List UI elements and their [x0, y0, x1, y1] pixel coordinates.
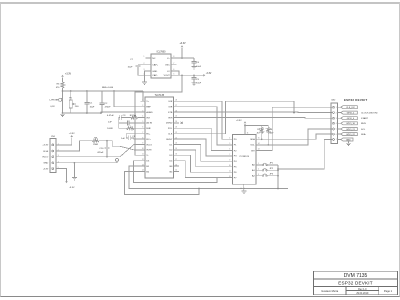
svg-text:IN HI: IN HI [43, 151, 48, 153]
svg-text:4: 4 [142, 116, 143, 118]
svg-text:12: 12 [142, 159, 144, 161]
svg-text:1: 1 [142, 100, 143, 102]
svg-text:O/R: O/R [168, 107, 172, 109]
svg-text:0,3V: 0,3V [50, 106, 55, 108]
svg-text:GPIO_21: GPIO_21 [346, 129, 356, 131]
svg-text:IN LO: IN LO [42, 157, 48, 159]
svg-text:15: 15 [258, 138, 260, 140]
svg-text:RUN: RUN [361, 123, 366, 125]
svg-text:+3.3V: +3.3V [65, 74, 72, 76]
svg-text:DGND: DGND [166, 123, 173, 125]
svg-text:+3.3V: +3.3V [69, 133, 75, 135]
svg-text:RC+: RC+ [146, 139, 151, 141]
svg-text:REF: REF [146, 107, 151, 109]
svg-text:10uF: 10uF [196, 66, 201, 68]
svg-text:REF=1.000: REF=1.000 [102, 87, 114, 89]
svg-text:V-: V- [146, 155, 148, 157]
svg-text:2: 2 [142, 105, 143, 107]
svg-text:29.04.2019: 29.04.2019 [356, 292, 369, 295]
svg-text:CLK: CLK [168, 134, 173, 136]
svg-text:16: 16 [247, 133, 249, 135]
svg-text:16: 16 [175, 164, 177, 166]
svg-text:1: 1 [143, 56, 144, 58]
svg-text:CAP+: CAP+ [152, 64, 158, 67]
svg-text:CLK_IO2: CLK_IO2 [346, 107, 355, 109]
svg-text:AZ IN: AZ IN [146, 122, 152, 125]
svg-text:14: 14 [258, 143, 260, 145]
svg-text:CAP-: CAP- [152, 74, 157, 77]
svg-text:14: 14 [142, 170, 144, 172]
svg-text:19: 19 [175, 148, 177, 150]
svg-text:2: 2 [258, 169, 259, 171]
svg-text:GND: GND [346, 139, 351, 141]
svg-text:GPIO_4: GPIO_4 [347, 118, 355, 120]
svg-text:+3.3V: +3.3V [179, 43, 186, 45]
svg-text:SDA: SDA [250, 138, 255, 141]
svg-text:15: 15 [175, 170, 177, 172]
svg-text:GND: GND [152, 71, 157, 73]
svg-text:7: 7 [173, 63, 174, 65]
svg-text:8: 8 [142, 137, 143, 139]
svg-text:5: 5 [229, 143, 230, 145]
svg-text:470uF: 470uF [97, 152, 104, 154]
svg-text:10: 10 [229, 165, 231, 167]
svg-text:6: 6 [173, 69, 174, 71]
svg-text:ICL7660: ICL7660 [157, 52, 166, 54]
svg-text:DVM 7135: DVM 7135 [344, 273, 368, 279]
svg-text:OSC: OSC [165, 65, 170, 67]
svg-text:CLOCK 490 KHz: CLOCK 490 KHz [361, 113, 378, 115]
svg-text:1uF: 1uF [108, 122, 112, 124]
svg-text:13: 13 [258, 149, 260, 151]
svg-text:11: 11 [229, 170, 231, 172]
svg-text:5: 5 [173, 74, 174, 76]
svg-text:26: 26 [175, 110, 177, 112]
svg-text:STB: STB [168, 112, 173, 114]
svg-text:+3.3V: +3.3V [42, 145, 48, 147]
svg-text:BUF: BUF [146, 128, 151, 130]
svg-text:SDA: SDA [361, 133, 366, 136]
svg-text:21: 21 [175, 137, 177, 139]
svg-text:-3.3V: -3.3V [43, 168, 49, 170]
svg-text:R7 10: R7 10 [130, 115, 137, 117]
svg-text:17: 17 [175, 159, 177, 161]
svg-text:24: 24 [175, 121, 177, 123]
svg-text:100R: 100R [93, 144, 98, 146]
svg-text:8: 8 [173, 56, 174, 58]
svg-text:-3.3V: -3.3V [206, 73, 212, 75]
svg-text:VOUT: VOUT [164, 75, 171, 77]
svg-text:3: 3 [142, 110, 143, 112]
svg-text:4: 4 [229, 138, 230, 140]
svg-text:ESP32 DEVKIT: ESP32 DEVKIT [344, 98, 367, 102]
svg-text:Page 1: Page 1 [384, 289, 393, 293]
svg-text:START: START [361, 117, 369, 120]
svg-text:POL: POL [168, 128, 173, 130]
svg-text:NC: NC [152, 58, 156, 60]
svg-text:11: 11 [142, 154, 144, 156]
svg-text:IN LO: IN LO [146, 144, 152, 146]
svg-text:Gustavo Murta: Gustavo Murta [321, 289, 339, 293]
svg-text:10uF: 10uF [90, 106, 95, 108]
svg-text:18: 18 [175, 154, 177, 156]
svg-text:L-PROBE: L-PROBE [49, 100, 59, 102]
svg-text:7: 7 [142, 132, 143, 134]
svg-text:6: 6 [229, 149, 230, 151]
svg-text:6: 6 [142, 127, 143, 129]
svg-text:GND: GND [43, 163, 48, 165]
svg-text:GPIO_2: GPIO_2 [347, 112, 355, 114]
svg-text:U/R: U/R [169, 101, 173, 103]
svg-text:28: 28 [175, 100, 177, 102]
svg-text:27: 27 [175, 105, 177, 107]
svg-text:7: 7 [229, 154, 230, 156]
svg-text:RC-: RC- [146, 134, 150, 136]
svg-text:+3.3V: +3.3V [236, 120, 242, 122]
svg-text:5: 5 [142, 121, 143, 123]
svg-text:10uF: 10uF [196, 83, 201, 85]
svg-text:GPIO_16: GPIO_16 [346, 123, 356, 125]
svg-text:22: 22 [175, 132, 177, 134]
svg-text:AGND: AGND [146, 111, 153, 114]
svg-text:1: 1 [258, 163, 259, 165]
svg-text:12: 12 [229, 176, 231, 178]
svg-text:13: 13 [142, 164, 144, 166]
svg-text:20: 20 [175, 143, 177, 145]
svg-text:Rev 1.0: Rev 1.0 [358, 288, 367, 291]
svg-text:PCF8574: PCF8574 [240, 156, 250, 158]
svg-text:-3.3V: -3.3V [69, 187, 75, 189]
svg-text:9: 9 [229, 159, 230, 161]
svg-text:BUSY: BUSY [166, 139, 172, 141]
svg-text:TLC7135: TLC7135 [155, 95, 165, 97]
svg-text:ESP32 DEVKIT: ESP32 DEVKIT [338, 281, 373, 286]
svg-text:IN HI: IN HI [146, 150, 151, 152]
svg-text:3: 3 [258, 174, 259, 176]
svg-text:100R: 100R [107, 128, 113, 130]
svg-text:25: 25 [175, 116, 177, 118]
svg-text:GPIO_22: GPIO_22 [346, 134, 356, 136]
svg-text:23: 23 [175, 127, 177, 129]
svg-text:1uF: 1uF [121, 138, 125, 140]
svg-text:10uF: 10uF [128, 66, 133, 68]
svg-text:R/H: R/H [169, 117, 173, 119]
svg-text:9: 9 [142, 143, 143, 145]
svg-text:470nF: 470nF [105, 107, 112, 109]
svg-text:0.47uF: 0.47uF [107, 115, 114, 117]
svg-text:10: 10 [142, 148, 144, 150]
